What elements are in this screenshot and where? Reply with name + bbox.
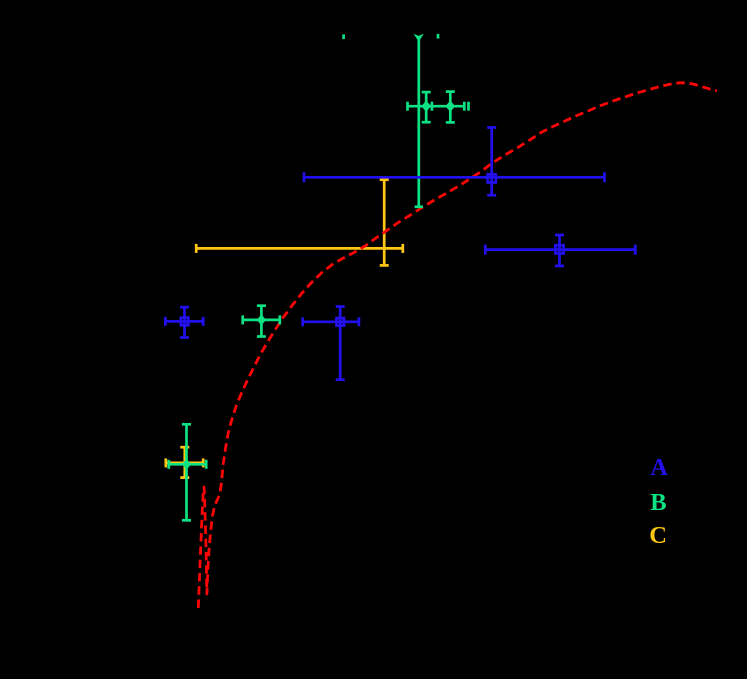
svg-text:C: C bbox=[649, 522, 667, 549]
svg-text:A: A bbox=[650, 454, 668, 481]
svg-text:B: B bbox=[650, 489, 666, 516]
